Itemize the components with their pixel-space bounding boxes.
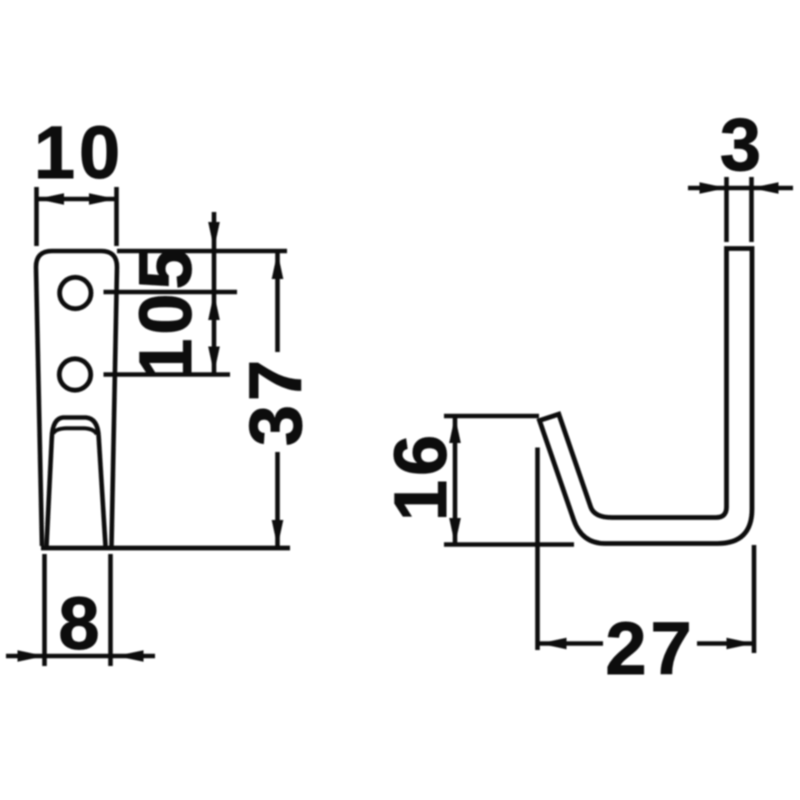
dim 10 extension line left: [34, 187, 39, 246]
dim 3 arrow right (pointing left): [752, 182, 779, 194]
svg-text:27: 27: [605, 607, 695, 690]
dim 27 arrow left (pointing left): [540, 638, 567, 650]
dim 16 extension line bottom: [444, 542, 574, 547]
dim 37 arrow up: [272, 252, 284, 279]
hole 2: [59, 359, 90, 390]
dim 37 line lower: [275, 452, 280, 547]
front view plate outline: [36, 251, 117, 546]
bottom baseline: [41, 546, 290, 551]
dim 37 line upper: [275, 252, 280, 352]
dim 5 arrow top (down): [208, 222, 220, 249]
dim 10 arrow left: [37, 193, 64, 205]
dim 16 arrow up: [449, 416, 461, 443]
dim 10 chain arrow up: [208, 293, 220, 320]
front view inner hook U outline: [47, 418, 106, 547]
dim 3 dimension line: [688, 186, 793, 191]
dim 5-10 chain line: [212, 212, 217, 375]
dim 16 extension line top: [444, 414, 539, 419]
dim 8 extension line right: [108, 554, 113, 666]
svg-text:3: 3: [720, 103, 765, 186]
dim 8 extension line left: [42, 554, 47, 666]
svg-text:8: 8: [58, 582, 103, 665]
hole 1: [60, 277, 91, 308]
dim 27 dimension line right segment: [697, 641, 754, 646]
dim 16 arrow down: [449, 518, 461, 545]
svg-text:37: 37: [234, 356, 317, 446]
dim 8 dimension line: [6, 654, 155, 659]
svg-text:10: 10: [34, 111, 124, 194]
dim 16 dimension line: [453, 416, 458, 545]
dim 27 dimension line left segment: [540, 641, 604, 646]
dim 8 arrow right (pointing left): [117, 650, 144, 662]
top edge extension line: [117, 249, 287, 254]
hole 1 leader line: [104, 290, 238, 295]
dim 3 extension line right: [749, 177, 754, 242]
dim 10 dimension line: [37, 197, 117, 202]
hole 2 leader line: [104, 372, 231, 377]
dim 27 extension line right: [752, 545, 757, 653]
dim 37 arrow down: [272, 520, 284, 547]
svg-text:16: 16: [379, 431, 462, 521]
svg-text:105: 105: [124, 244, 207, 379]
dim 3 extension line left: [724, 177, 729, 242]
dim 10 extension line right: [114, 187, 119, 246]
side view hook profile: [540, 249, 753, 544]
dim 10 chain arrow down: [208, 347, 220, 374]
dim 27 extension line left: [535, 448, 540, 651]
front view inner hook lip arc: [53, 428, 97, 434]
dim 27 arrow right (pointing right): [727, 638, 754, 650]
dim 10 arrow right: [89, 193, 116, 205]
dim 3 arrow left (pointing right): [700, 182, 727, 194]
dim 8 arrow left (pointing right): [18, 650, 45, 662]
